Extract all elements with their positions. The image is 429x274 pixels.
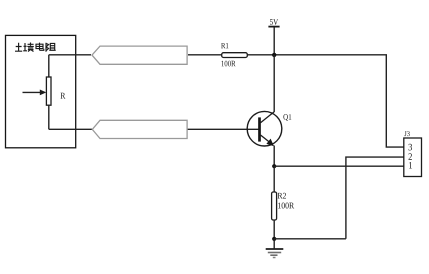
wire box to bottom cable	[49, 128, 92, 130]
wire R1 to corner (5V rail)	[248, 54, 388, 56]
label R2	[278, 193, 286, 199]
pin 1	[409, 162, 412, 168]
label J3	[404, 131, 409, 136]
label R1	[221, 43, 228, 48]
junction dot emitter node	[272, 164, 276, 168]
电	[36, 43, 44, 51]
resistor R1	[222, 53, 248, 58]
junction dot ground node	[272, 237, 276, 241]
阻	[46, 43, 56, 52]
wire R2 to ground node	[273, 220, 275, 239]
wire bottom cable to Q1 base	[188, 128, 259, 130]
wire bottom inside box	[48, 105, 50, 129]
ground symbol	[266, 239, 284, 258]
wire ground node to pin2 riser	[274, 238, 346, 240]
resistor R2	[272, 192, 277, 220]
power 5V symbol	[268, 19, 279, 55]
bottom cable lug (pointed shape)	[92, 120, 187, 138]
label 100R	[222, 61, 236, 67]
壤	[23, 43, 34, 52]
wire riser to J3 pin2	[346, 157, 404, 239]
wiper arrow	[23, 91, 41, 93]
wire top inside box	[48, 55, 50, 77]
label R	[61, 93, 66, 99]
label Q1	[283, 114, 291, 121]
pin 2	[408, 153, 411, 159]
wire top cable to R1	[188, 54, 222, 56]
soil resistance box outline	[6, 35, 76, 147]
土	[15, 43, 22, 52]
wire emitter node to J3 pin1	[274, 165, 404, 167]
wire rail down to J3 pin3	[386, 55, 404, 147]
wire collector up	[273, 55, 275, 112]
pin 3	[409, 144, 413, 151]
potentiometer R inside box	[23, 55, 66, 130]
label 土壤电阻	[15, 43, 56, 52]
transistor Q1	[247, 111, 291, 146]
top cable lug (pointed shape)	[92, 46, 187, 64]
junction dot rail/collector	[272, 53, 276, 57]
wire emitter node down to R2	[273, 166, 275, 192]
label 100R	[278, 203, 294, 209]
wire emitter down	[273, 146, 275, 167]
wire box to top cable	[49, 54, 91, 56]
resistor body R	[46, 77, 51, 105]
connector J3	[404, 131, 422, 176]
